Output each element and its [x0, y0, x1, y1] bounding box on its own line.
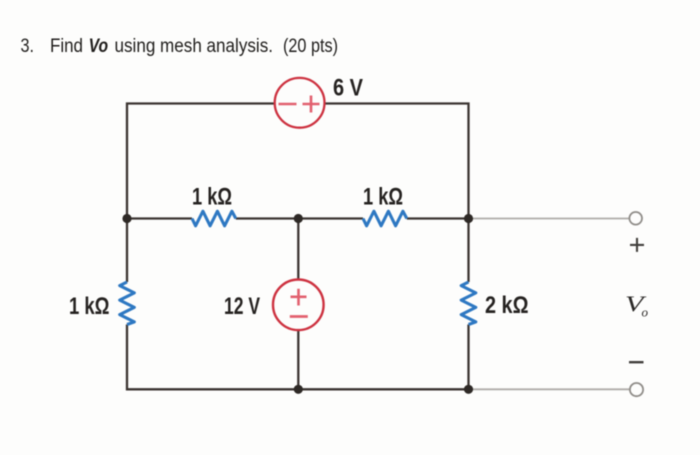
wire left-lower: left node down to left resistor: [126, 219, 128, 283]
node B junction dot (centre middle): [294, 214, 303, 223]
wire middle horizontal centre segment: [236, 217, 363, 219]
resistor R2 1kohm horizontal right: [363, 211, 407, 226]
wire middle horizontal right segment: [407, 217, 469, 219]
V1 plus sign: [303, 96, 320, 113]
svg-text:1 kΩ: 1 kΩ: [363, 184, 403, 211]
svg-text:1 kΩ: 1 kΩ: [69, 293, 110, 320]
svg-text:(20 pts): (20 pts): [283, 36, 338, 57]
V1 minus sign: [279, 103, 297, 106]
voltage source V2 12V circle: [273, 280, 324, 331]
terminal - (open circle bottom): [630, 383, 643, 396]
svg-text:Vo: Vo: [89, 36, 109, 57]
resistor R3 1kohm vertical left: [120, 282, 135, 325]
svg-text:1 kΩ: 1 kΩ: [192, 184, 232, 211]
wire output top (gray): [469, 218, 629, 220]
wire right vertical upper: node C down to 2k resistor: [467, 219, 469, 283]
terminal + (open circle top): [629, 212, 642, 225]
wire bottom: left resistor bottom around to right node: [127, 325, 469, 390]
wire output bottom (gray): [469, 388, 630, 390]
svg-text:using mesh analysis.: using mesh analysis.: [115, 36, 274, 57]
wire top-right: 6V source to right corner: [325, 104, 469, 219]
V2 plus sign: [291, 289, 307, 306]
node D junction dot (centre bottom): [294, 385, 303, 394]
minus mark at output: [629, 361, 644, 363]
node C junction dot (right middle): [464, 214, 473, 223]
svg-text:3.: 3.: [21, 36, 35, 57]
wire right vertical lower: 2k resistor to bottom right node: [467, 325, 469, 390]
voltage source V1 6V circle: [275, 78, 325, 128]
resistor R4 2kohm vertical right: [461, 282, 476, 325]
svg-text:12 V: 12 V: [224, 293, 260, 320]
node E junction dot (right bottom): [464, 385, 473, 394]
resistor R1 1kohm horizontal left: [192, 211, 236, 226]
V2 minus sign: [290, 315, 308, 318]
wire middle horizontal left segment: [127, 217, 192, 219]
svg-text:Find: Find: [50, 36, 83, 57]
wire middle vertical: 12V source to bottom wire: [297, 330, 299, 389]
svg-text:6 V: 6 V: [333, 75, 363, 102]
wire middle vertical: node B down to 12V source: [297, 219, 299, 280]
node A junction dot (left middle): [122, 214, 131, 223]
wire top-left: left corner to 6V source: [127, 104, 275, 219]
title: [21, 36, 339, 57]
plus mark at output: [630, 238, 644, 252]
svg-text:o: o: [642, 305, 649, 320]
svg-text:2 kΩ: 2 kΩ: [485, 292, 529, 319]
